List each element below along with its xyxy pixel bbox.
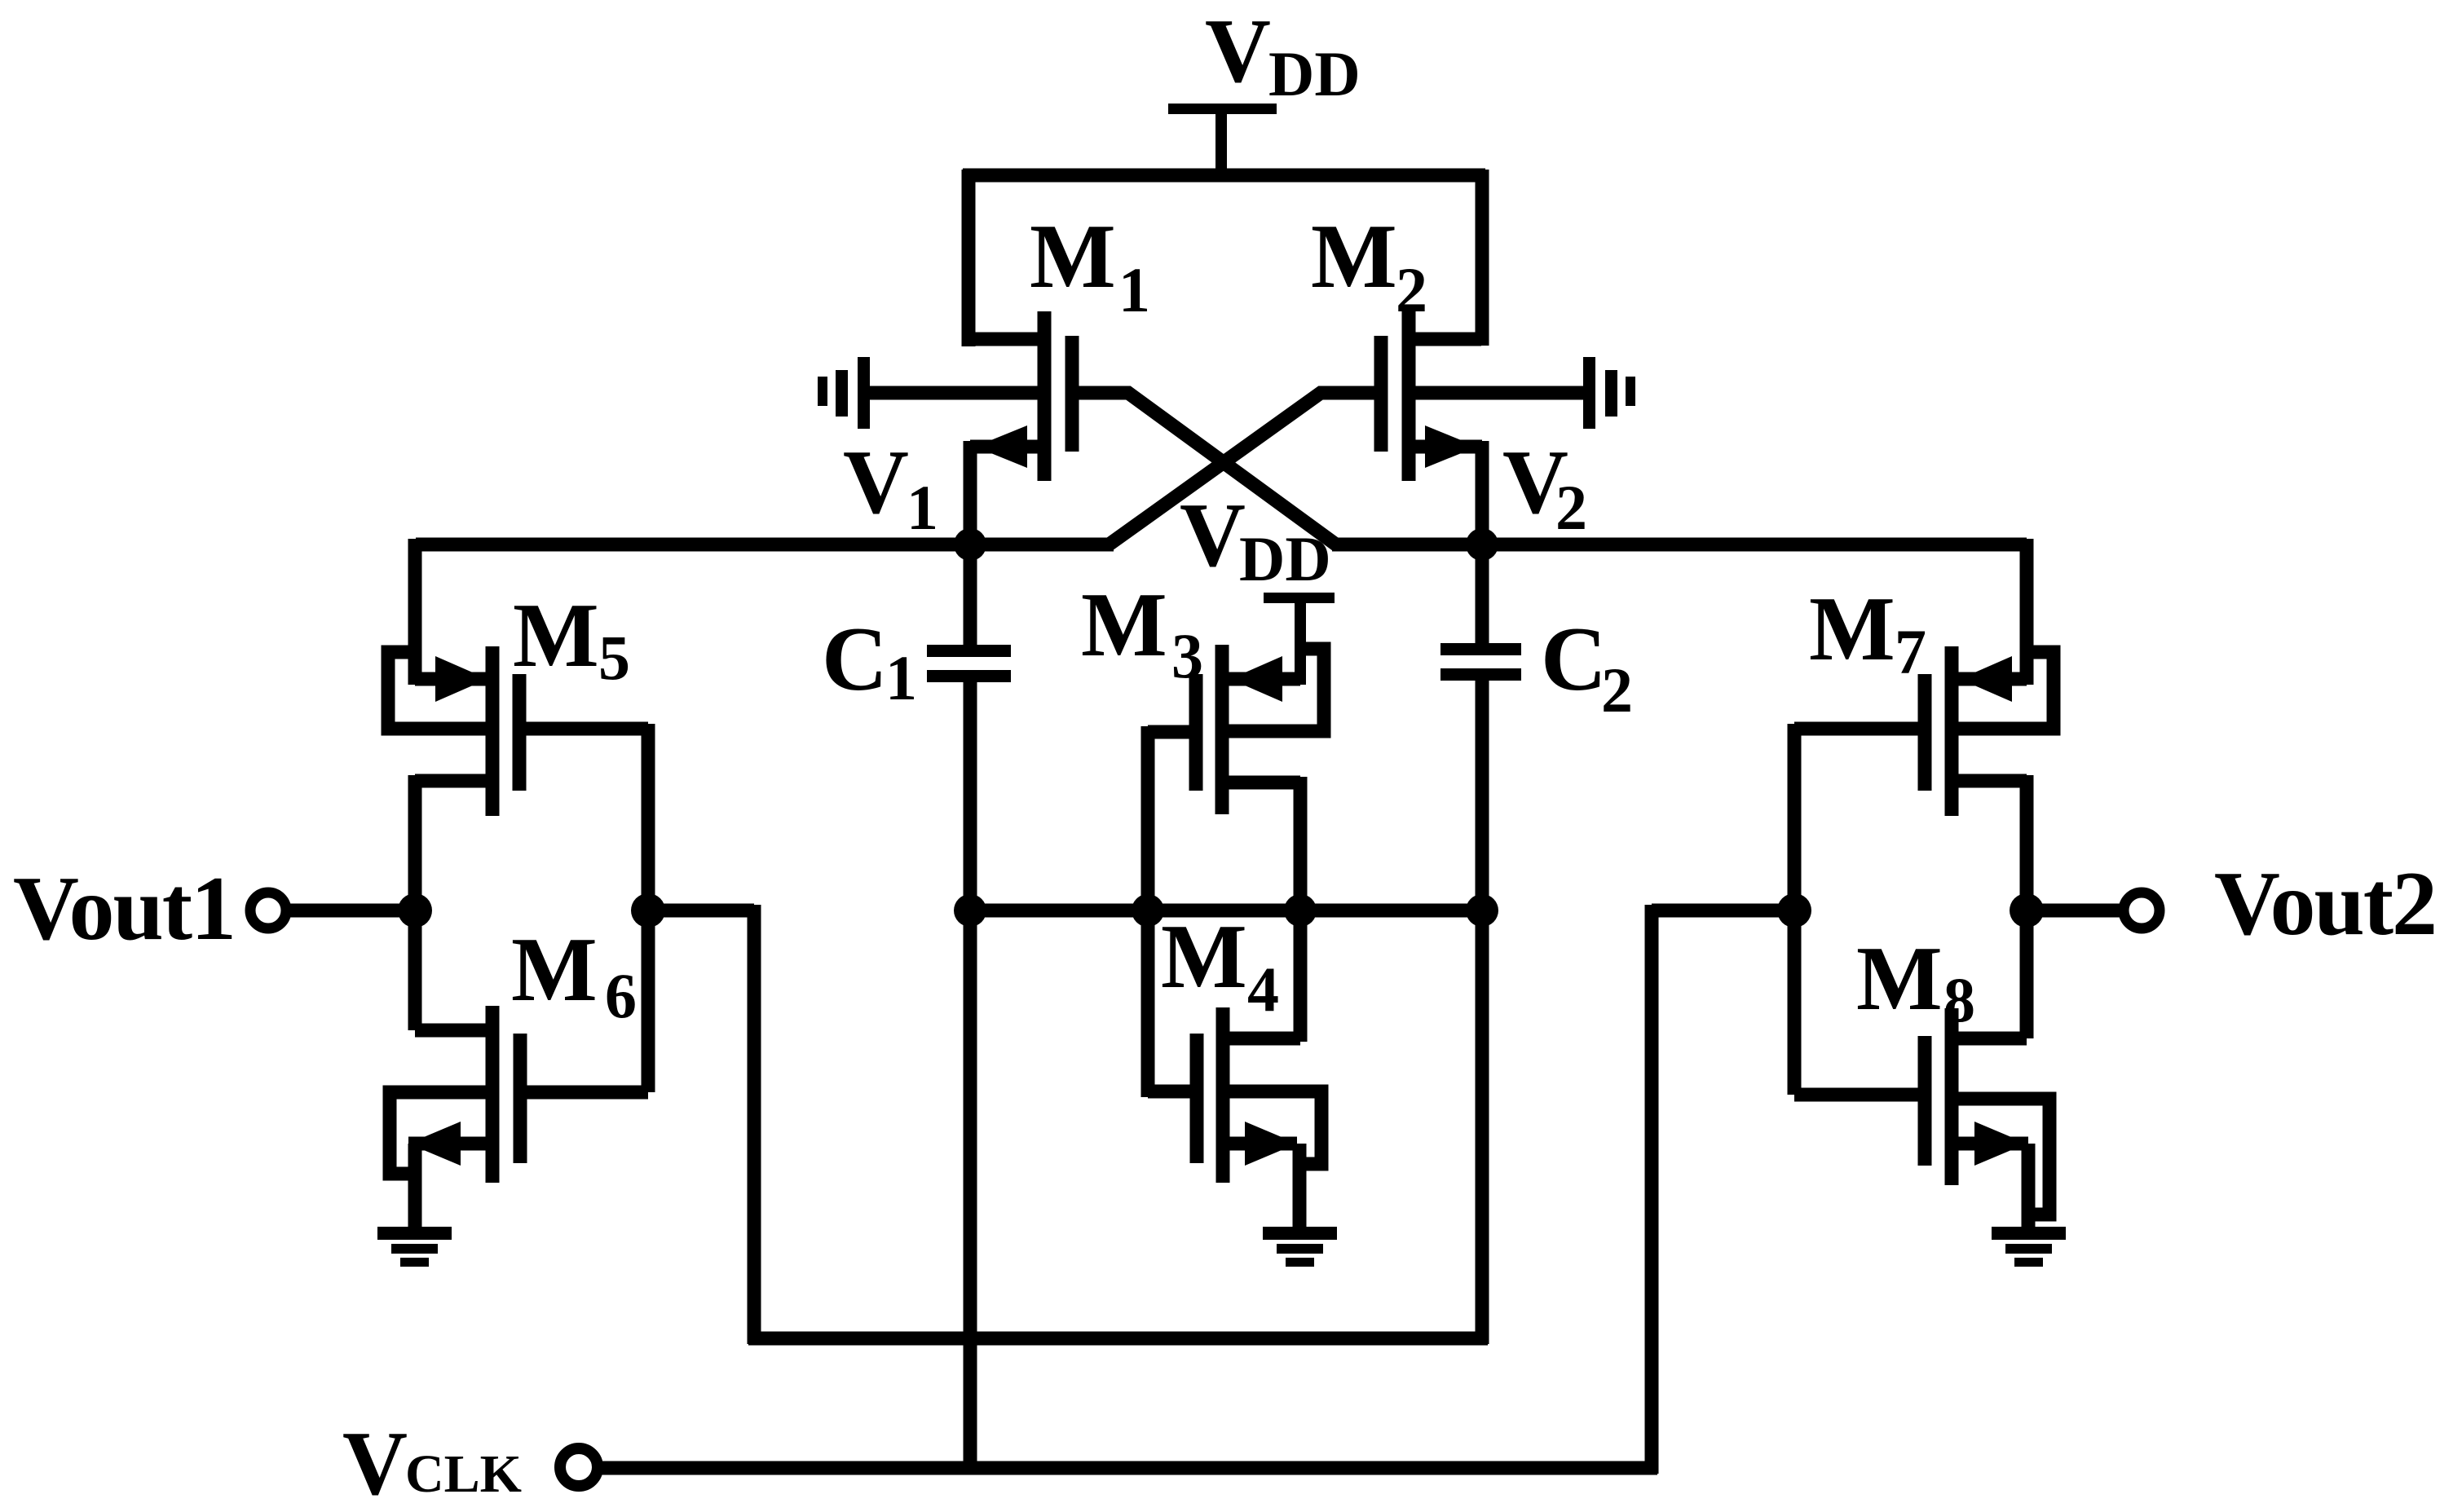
svg-text:1: 1 xyxy=(907,472,938,543)
svg-text:C: C xyxy=(1541,609,1607,710)
svg-text:3: 3 xyxy=(1171,620,1203,691)
svg-text:M: M xyxy=(511,919,598,1020)
svg-text:2: 2 xyxy=(1601,655,1633,725)
svg-text:Vout1: Vout1 xyxy=(13,858,236,959)
svg-text:7: 7 xyxy=(1895,616,1926,687)
svg-text:V: V xyxy=(342,1413,408,1512)
svg-text:M: M xyxy=(1856,928,1943,1029)
svg-text:8: 8 xyxy=(1943,964,1975,1035)
svg-text:M: M xyxy=(1081,575,1167,676)
svg-text:V: V xyxy=(1205,1,1271,102)
svg-text:1: 1 xyxy=(885,642,917,713)
svg-text:M: M xyxy=(1311,206,1397,307)
svg-text:DD: DD xyxy=(1268,38,1361,109)
svg-text:CLK: CLK xyxy=(405,1444,522,1504)
svg-text:5: 5 xyxy=(598,622,630,693)
svg-text:DD: DD xyxy=(1239,523,1331,594)
svg-text:M: M xyxy=(1161,906,1247,1007)
svg-text:M: M xyxy=(1030,206,1116,307)
svg-text:6: 6 xyxy=(605,960,637,1031)
svg-text:4: 4 xyxy=(1247,954,1279,1025)
svg-text:V: V xyxy=(843,432,909,533)
svg-text:V: V xyxy=(1180,485,1246,586)
svg-text:1: 1 xyxy=(1118,254,1150,325)
svg-text:2: 2 xyxy=(1555,472,1587,543)
svg-text:Vout2: Vout2 xyxy=(2214,853,2438,954)
svg-text:2: 2 xyxy=(1396,254,1427,325)
svg-text:M: M xyxy=(513,585,599,686)
svg-text:M: M xyxy=(1809,579,1895,680)
svg-text:C: C xyxy=(822,609,888,710)
